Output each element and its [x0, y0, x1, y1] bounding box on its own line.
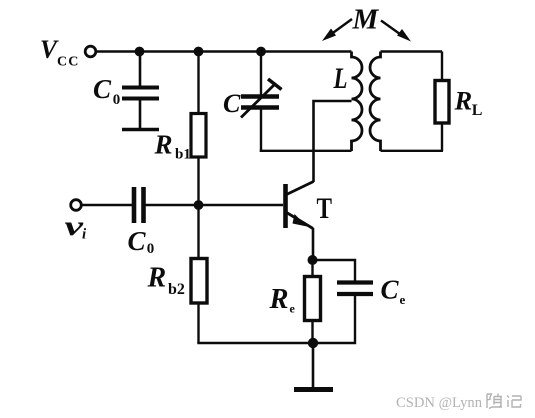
wire Ce-bottom-lead — [313, 295, 355, 343]
svg-text:C: C — [128, 226, 147, 256]
label Vcc — [40, 35, 80, 70]
wire secondary-right-bottom — [441, 123, 443, 151]
node junction-Rb1-top — [194, 47, 204, 57]
label Ce — [381, 274, 406, 307]
arrow variable-cap-bar — [268, 79, 282, 90]
svg-text:b2: b2 — [168, 281, 185, 298]
wire tank-C-bottom-lead — [260, 109, 262, 152]
wire emitter-lead — [312, 228, 315, 260]
svg-text:0: 0 — [147, 241, 155, 257]
wire tank-bottom-rail — [260, 150, 352, 152]
capacitor C0 (bypass) — [122, 88, 159, 99]
svg-text:L: L — [472, 102, 483, 119]
svg-text:R: R — [454, 86, 473, 116]
transistor emitter-arrow — [293, 214, 308, 227]
resistor Re — [305, 277, 321, 321]
watermark CJK glyph sui — [487, 394, 502, 409]
terminal Vcc — [85, 46, 96, 57]
wire emitter-to-Re — [311, 260, 313, 277]
svg-text:C: C — [223, 89, 241, 118]
capacitor C (variable) — [241, 97, 279, 108]
wire collector-lead — [314, 101, 352, 182]
arrow variable-cap-shaft — [241, 84, 275, 118]
wire base-node-to-Rb2 — [197, 205, 199, 259]
wire Rb2-bottom-lead — [197, 303, 199, 343]
label vi — [65, 211, 88, 243]
svg-text:C: C — [381, 274, 400, 304]
svg-text:R: R — [154, 130, 173, 160]
label C0 (input) — [128, 226, 155, 257]
arrow M-right — [381, 21, 411, 42]
svg-text:b1: b1 — [175, 147, 191, 163]
ground symbol — [294, 387, 333, 392]
watermark CJK glyph ji — [507, 396, 521, 408]
label Rb2 — [147, 262, 185, 298]
ground C0-bottom-bar — [122, 128, 159, 131]
resistor RL — [435, 81, 449, 124]
arrow M-left — [322, 19, 352, 41]
svg-text:M: M — [352, 4, 380, 36]
svg-text:L: L — [333, 63, 348, 95]
wire secondary-right-top — [441, 52, 443, 82]
svg-text:CC: CC — [57, 54, 80, 69]
label C0 (bypass) — [93, 74, 120, 108]
wire secondary-top-rail — [381, 50, 443, 52]
wire tank-C-top-lead — [260, 52, 262, 96]
wire Re-bottom-lead — [311, 321, 313, 344]
svg-text:e: e — [290, 302, 296, 316]
svg-text:CSDN @Lynn: CSDN @Lynn — [396, 395, 482, 411]
label Rb1 — [154, 130, 191, 163]
capacitor C0 (input coupling) — [134, 187, 144, 223]
svg-text:R: R — [147, 262, 167, 293]
node junction-tank-top — [256, 47, 266, 57]
svg-text:0: 0 — [113, 92, 121, 108]
wire emitter-to-Ce — [313, 260, 356, 282]
node junction-ground — [308, 338, 318, 348]
resistor Rb2 — [191, 259, 207, 304]
svg-text:e: e — [400, 292, 406, 307]
wire bottom-rail — [197, 342, 313, 344]
inductor L (primary winding) — [352, 52, 363, 152]
resistor Rb1 — [191, 114, 206, 158]
svg-text:R: R — [269, 284, 289, 315]
wire Rb1-bottom-lead — [197, 157, 199, 205]
capacitor Ce — [337, 283, 373, 295]
transistor emitter-stroke — [287, 213, 314, 229]
wire ground-stem — [312, 343, 315, 388]
transistor collector-stroke — [287, 182, 314, 195]
wire Rb1-top-lead — [197, 52, 199, 115]
svg-text:T: T — [317, 193, 333, 225]
wire C0-bypass-bottom-lead — [139, 100, 142, 129]
inductor secondary-winding — [370, 52, 381, 152]
svg-text:C: C — [93, 74, 112, 104]
transistor base-bar — [283, 184, 288, 228]
wire secondary-bottom-rail — [381, 150, 444, 152]
wire top-rail — [97, 50, 352, 52]
terminal vi — [71, 200, 82, 211]
wire C0-to-base — [145, 204, 283, 206]
wire vi-to-C0 — [82, 204, 132, 206]
label Re — [269, 284, 296, 316]
node junction-emitter — [308, 255, 318, 265]
wire C0-bypass-top-lead — [139, 52, 142, 87]
transistor Q T — [286, 182, 314, 229]
node junction-base — [194, 200, 204, 210]
watermark CSDN — [396, 395, 482, 411]
node junction-C0-top — [135, 47, 145, 57]
label RL — [454, 86, 483, 120]
